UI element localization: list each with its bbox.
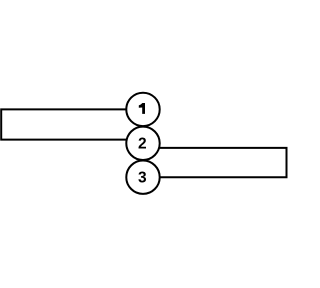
- svg-text:3: 3: [138, 170, 147, 187]
- svg-text:2: 2: [138, 136, 147, 153]
